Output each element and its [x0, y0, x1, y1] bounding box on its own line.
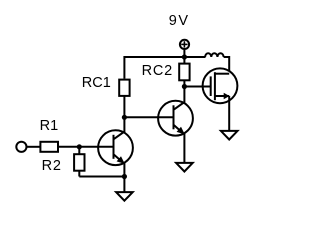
- svg-text:RC2: RC2: [142, 63, 173, 79]
- svg-text:9V: 9V: [169, 13, 190, 29]
- inductor: [205, 53, 224, 57]
- node A: Q1 collector junction: [122, 115, 127, 120]
- resistor R1: [40, 142, 58, 152]
- resistor R2: [74, 147, 84, 177]
- wire R2 bottom to emitter node: [79, 176, 124, 178]
- wire R1 to Q1 base: [58, 146, 114, 148]
- ground (FET source): [221, 131, 238, 140]
- svg-text:R2: R2: [42, 158, 62, 174]
- resistor RC2: [179, 57, 189, 87]
- wire RC2 node to FET gate: [184, 86, 210, 88]
- node: R2 tap junction: [77, 144, 82, 149]
- wire node B to ground: [123, 177, 125, 193]
- svg-text:R1: R1: [40, 118, 59, 134]
- wire inductor to FET drain: [224, 57, 230, 74]
- wire terminal to R1: [27, 146, 41, 148]
- node: RC2 bottom junction: [182, 84, 187, 89]
- node B: Q1 emitter junction: [122, 174, 127, 179]
- ground (Q1 emitter): [116, 192, 133, 201]
- transistor Q1: [97, 117, 133, 176]
- transistor Q2: [157, 87, 193, 163]
- resistor RC1: [119, 80, 129, 118]
- svg-text:RC1: RC1: [82, 75, 111, 91]
- wire FET source to ground: [228, 96, 230, 131]
- wire top supply rail: [124, 57, 205, 79]
- ground (Q2 emitter): [176, 163, 193, 172]
- wire node A to Q2 base: [124, 116, 173, 118]
- node: rail junction: [182, 54, 187, 59]
- transistor FET: [184, 68, 237, 103]
- power supply +9V: [180, 40, 189, 57]
- input terminal: [16, 142, 26, 152]
